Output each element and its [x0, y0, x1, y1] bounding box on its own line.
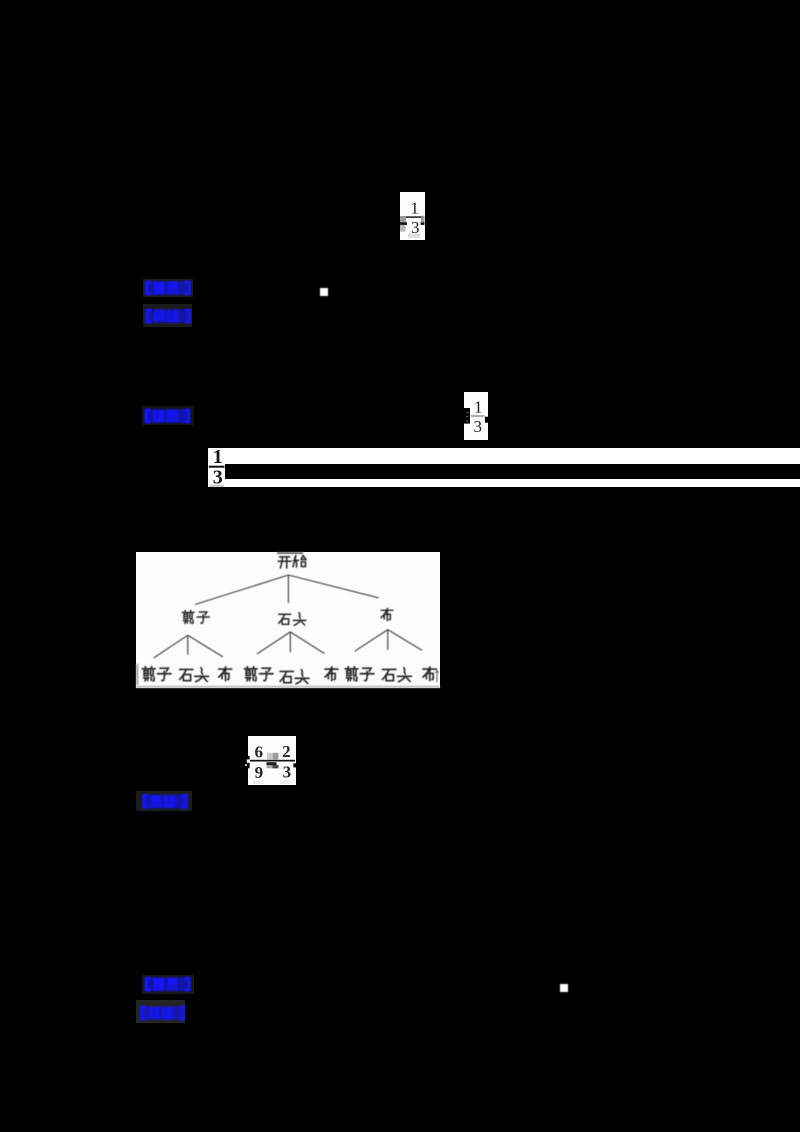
tree diagram image [136, 552, 440, 688]
svg-text:1: 1 [474, 398, 483, 417]
equation strip C: 1/3 with long bar [208, 448, 800, 487]
svg-text:3: 3 [474, 417, 483, 436]
tree wires [287, 575, 289, 603]
svg-text:1: 1 [410, 198, 419, 217]
blue label L6 [136, 1000, 185, 1024]
blue label L1 [143, 279, 193, 297]
svg-text:1: 1 [213, 448, 223, 468]
svg-text:3: 3 [411, 218, 420, 237]
white square S2 [560, 984, 568, 992]
blue label L4 [136, 791, 192, 811]
svg-text:3: 3 [213, 466, 223, 487]
fraction image A: 1/3 [400, 192, 425, 240]
svg-text:2: 2 [282, 742, 291, 761]
blue label L5 [142, 975, 194, 994]
blue label L2 [143, 304, 193, 327]
svg-text:3: 3 [283, 762, 292, 781]
fraction image B: 1/3 [464, 392, 488, 440]
fraction image D: 6/9=2/3 [248, 736, 296, 786]
white square S1 [320, 288, 328, 296]
blue label L3 [142, 406, 194, 425]
